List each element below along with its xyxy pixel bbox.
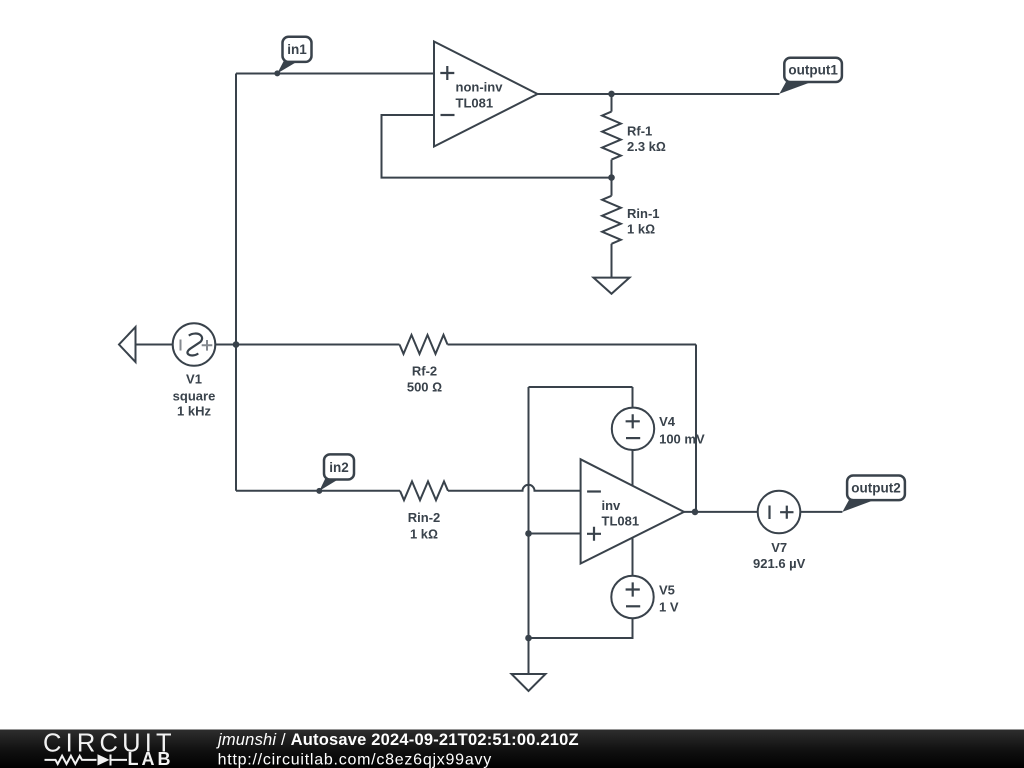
svg-text:TL081: TL081 <box>602 514 640 529</box>
V7 minus bar <box>768 506 770 520</box>
flag output1 tail <box>779 81 810 94</box>
flag in2 tail <box>319 477 338 491</box>
wire op-amp U1 output to output1 <box>538 93 780 95</box>
svg-text:V7: V7 <box>771 540 787 555</box>
flag in1 anchor dot <box>274 70 280 76</box>
resistor Rf-1 leads <box>611 94 613 178</box>
svg-text:http://circuitlab.com/c8ez6qjx: http://circuitlab.com/c8ez6qjx99avy <box>218 752 492 768</box>
wire in2 horizontal <box>236 490 400 492</box>
svg-text:921.6 µV: 921.6 µV <box>753 556 806 571</box>
wire U2 plus input <box>529 533 581 535</box>
V1 plus sign gray <box>202 340 213 351</box>
resistor Rf-1 zigzag <box>602 112 621 160</box>
wire Rf-2 right to corner <box>448 344 697 346</box>
op-amp U1 minus sign <box>441 114 455 116</box>
junction node bottom loop <box>525 635 532 642</box>
V5 minus sign <box>626 605 640 607</box>
flag in2 box <box>324 454 354 479</box>
wire Rin-2 to U2 minus with hop over vertical wire <box>448 485 581 491</box>
svg-text:Rf-1: Rf-1 <box>627 124 652 139</box>
wire lower loop vertical <box>528 387 530 638</box>
resistor Rin-1 zigzag <box>602 196 621 244</box>
svg-text:1 V: 1 V <box>659 600 679 615</box>
flag in1 tail <box>277 60 296 74</box>
wire V7 to output2 <box>800 511 842 513</box>
svg-text:inv: inv <box>602 498 622 513</box>
svg-text:1 kHz: 1 kHz <box>177 404 211 419</box>
voltage source V1 circle <box>173 323 216 366</box>
flag in1 box <box>283 37 312 62</box>
svg-text:square: square <box>173 388 216 403</box>
ground G1 <box>594 278 630 294</box>
svg-text:V1: V1 <box>186 372 202 387</box>
logo resistor doodle <box>45 756 97 764</box>
ground G2 <box>512 674 546 691</box>
wire V4 top lead <box>632 387 634 408</box>
V1 square wave glyph <box>187 334 202 356</box>
logo diode triangle <box>98 754 110 765</box>
svg-text:500 Ω: 500 Ω <box>407 380 442 395</box>
svg-text:Rin-2: Rin-2 <box>408 510 441 525</box>
wire in1 horizontal to op-amp U1 + input <box>236 73 434 75</box>
svg-text:2.3 kΩ: 2.3 kΩ <box>627 139 666 154</box>
svg-text:V4: V4 <box>659 414 676 429</box>
voltage source V7 circle <box>758 491 801 534</box>
junction node U2 plus input <box>525 530 532 537</box>
wire V5 top lead to U2 bottom edge <box>632 537 634 576</box>
svg-text:TL081: TL081 <box>456 96 494 111</box>
resistor Rf-2 zigzag <box>400 335 448 354</box>
voltage source V5 circle <box>611 576 653 618</box>
voltage source V4 circle <box>612 408 654 450</box>
junction node Rf-1 / Rin-1 / feedback <box>608 174 615 181</box>
op-amp U2 minus sign <box>587 490 601 492</box>
op-amp U2 plus sign <box>587 527 601 541</box>
wire V4 bottom lead to U2 top edge <box>632 450 634 486</box>
flag output2 box <box>847 476 905 501</box>
V4 plus sign <box>626 414 640 428</box>
resistor Rin-1 leads <box>611 178 613 278</box>
op-amp U1 plus sign <box>440 66 454 80</box>
svg-text:1 kΩ: 1 kΩ <box>627 221 655 236</box>
svg-text:V5: V5 <box>659 582 675 597</box>
wire V1 to node A <box>215 344 399 346</box>
junction node U2 output <box>692 509 699 516</box>
wire main vertical bus left <box>235 74 237 491</box>
svg-text:Rin-1: Rin-1 <box>627 206 660 221</box>
svg-text:Rf-2: Rf-2 <box>412 364 437 379</box>
svg-text:in2: in2 <box>329 460 349 475</box>
wire bottom horizontal to V5 <box>529 618 633 638</box>
wire U2 output to V7 <box>684 511 758 513</box>
svg-text:jmunshi / Autosave 2024-09-21T: jmunshi / Autosave 2024-09-21T02:51:00.2… <box>216 731 579 749</box>
ground left at V1 <box>119 327 136 362</box>
op-amp U2 triangle <box>581 459 684 563</box>
V4 minus sign <box>626 437 640 439</box>
svg-text:LAB: LAB <box>128 749 174 768</box>
svg-text:non-inv: non-inv <box>456 79 504 94</box>
svg-text:output2: output2 <box>851 481 901 496</box>
svg-text:in1: in1 <box>287 42 307 57</box>
op-amp U1 triangle <box>434 42 538 147</box>
junction node V1/bus <box>233 341 240 348</box>
V5 plus sign <box>626 582 640 596</box>
flag in2 anchor dot <box>316 488 322 494</box>
flag output2 tail <box>842 499 873 512</box>
logo diode <box>111 755 128 766</box>
wire V1 to ground left <box>136 344 173 346</box>
junction node U1 output / Rf-1 <box>608 91 615 98</box>
resistor Rin-2 zigzag <box>400 481 448 500</box>
flag output1 box <box>784 58 842 82</box>
svg-text:output1: output1 <box>788 63 838 78</box>
wire lower loop top horizontal <box>529 386 633 388</box>
svg-text:1 kΩ: 1 kΩ <box>410 527 438 542</box>
ground G2 lead <box>528 638 530 674</box>
wire feedback U1 minus input loop <box>382 115 612 178</box>
wire vertical Rf-2 corner down to op-amp U2 output node <box>695 345 697 512</box>
svg-text:100 mV: 100 mV <box>659 431 705 446</box>
V1 minus sign gray <box>180 340 182 351</box>
V7 plus sign <box>780 506 793 519</box>
